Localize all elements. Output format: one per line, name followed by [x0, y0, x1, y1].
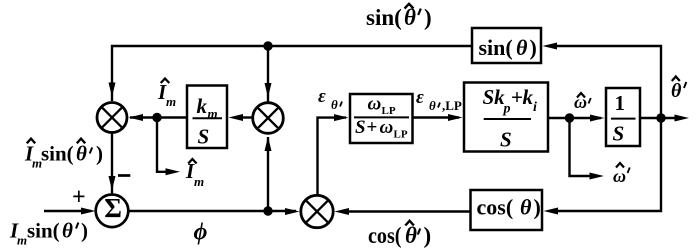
svg-text:ε: ε — [318, 86, 326, 107]
wire 1/S output to theta-hat' out — [640, 117, 683, 119]
wire PI output to 1/S — [548, 117, 601, 119]
svg-text:): ) — [530, 35, 537, 60]
svg-text:i: i — [533, 100, 537, 115]
svg-text:LP: LP — [382, 105, 396, 117]
svg-text:): ) — [81, 219, 88, 243]
arrow pickoff Im — [166, 168, 181, 175]
wire M2 output to km/S box — [238, 116, 253, 118]
svg-text:k: k — [523, 85, 534, 109]
svg-text:sin(: sin( — [27, 219, 60, 243]
svg-text:cos(: cos( — [368, 223, 402, 248]
wire feedback down to cos(theta) — [552, 118, 661, 211]
multiplier M2 — [253, 103, 284, 134]
label Im sin(theta') — [9, 219, 88, 248]
svg-text:m: m — [17, 233, 27, 248]
summer SIGMA — [96, 193, 129, 227]
arrow into M2 bottom — [265, 137, 272, 152]
svg-text:): ) — [424, 223, 432, 248]
wire feedback up to sin(theta) — [551, 46, 661, 118]
svg-text:ϕ: ϕ — [194, 220, 208, 246]
node junction phi line below M2 — [263, 206, 272, 215]
svg-text:+: + — [367, 117, 378, 138]
wire pickoff omega-hat' down and right — [570, 118, 598, 176]
PI controller block (Skp+ki)/S — [464, 83, 548, 152]
multiplier M1 — [97, 103, 127, 133]
svg-text:Σ: Σ — [104, 193, 122, 223]
svg-text:sin(: sin( — [366, 5, 402, 30]
svg-text:1: 1 — [615, 91, 626, 115]
wire arrow into multiplier M1 top — [109, 83, 116, 98]
label Im-hat (pickoff) — [185, 159, 204, 189]
arrow into summer top — [109, 176, 116, 191]
svg-text:ω: ω — [368, 94, 382, 115]
svg-text:θ: θ — [520, 195, 532, 220]
svg-text:): ) — [424, 5, 432, 30]
label Im-hat sin(theta-hat') — [24, 139, 103, 171]
svg-text:sin(: sin( — [41, 142, 74, 166]
wire input Im sin(theta') — [44, 210, 91, 212]
wire pickoff of Im estimate down and right — [157, 118, 172, 172]
label sin(theta-hat') top — [366, 4, 432, 30]
wire arrow into multiplier M2 top — [265, 83, 272, 98]
svg-text:S: S — [355, 117, 366, 138]
svg-text:ω: ω — [613, 166, 626, 186]
svg-text:): ) — [96, 142, 103, 166]
svg-text:S: S — [613, 122, 625, 146]
svg-text:+: + — [511, 85, 523, 109]
arrow into M3 right edge — [335, 208, 350, 215]
label omega-hat' (pickoff) — [613, 163, 630, 186]
arrow into summer left — [81, 208, 96, 215]
trig block cos(theta) — [471, 190, 543, 230]
svg-text:θ: θ — [429, 98, 436, 113]
svg-text:θ: θ — [331, 97, 338, 112]
wire cos(theta) output to M3 — [342, 210, 471, 212]
node junction on top line above M2 — [263, 41, 272, 50]
label epsilon theta' — [318, 86, 342, 112]
svg-text:): ) — [534, 195, 541, 220]
svg-text:+: + — [72, 185, 86, 211]
svg-text:θ: θ — [671, 80, 682, 102]
multiplier M3 — [301, 195, 333, 227]
trig block sin(theta) — [472, 28, 541, 63]
label minus sign — [118, 174, 130, 177]
svg-text:θ: θ — [62, 219, 73, 243]
arrow output theta-hat' — [675, 115, 690, 122]
label epsilon theta',LP — [416, 87, 462, 113]
arrow into PI block left edge — [448, 114, 463, 121]
wire LP output to PI block — [413, 116, 460, 118]
label theta-hat' output — [671, 77, 686, 103]
svg-text:LP: LP — [394, 129, 408, 141]
arrow into sin(theta) right edge — [543, 43, 558, 50]
node junction theta-hat' — [656, 113, 665, 122]
low-pass filter block wLP/(S+wLP) — [350, 94, 413, 144]
label Im-hat (above junction) — [157, 79, 176, 110]
arrow pickoff omega-hat' — [590, 173, 605, 180]
svg-text:θ: θ — [405, 223, 417, 248]
integrator block 1/S — [606, 88, 640, 146]
arrow into M1 right edge — [129, 114, 144, 121]
wire branch down into multiplier M2 — [267, 46, 269, 102]
arrow into km/S right edge — [229, 114, 244, 121]
wire summer output to multiplier M3 — [128, 210, 296, 212]
arrow into M3 left — [285, 208, 300, 215]
svg-text:cos(: cos( — [477, 195, 514, 220]
svg-text:θ: θ — [76, 142, 87, 166]
arrow into cos(theta) right edge — [544, 208, 559, 215]
label omega-hat' above — [574, 92, 591, 112]
svg-text:S: S — [198, 125, 210, 149]
svg-text:sin(: sin( — [479, 35, 513, 60]
arrow into 1/S left edge — [590, 115, 605, 122]
wire top feedback horizontal from sin(theta) output to left column — [112, 46, 472, 101]
svg-text:S: S — [500, 127, 512, 151]
svg-text:m: m — [166, 94, 176, 109]
wire M3 output up to LP filter — [318, 118, 347, 196]
svg-text:m: m — [194, 174, 204, 189]
node junction omega-hat' — [565, 113, 574, 122]
svg-text:p: p — [503, 102, 511, 117]
svg-text:ε: ε — [416, 87, 424, 108]
node junction Im estimate — [152, 113, 161, 122]
svg-text:k: k — [197, 94, 208, 118]
arrow into LP filter left edge — [334, 114, 349, 121]
label cos(theta-hat') — [368, 221, 431, 248]
wire M1 output down to summer — [111, 133, 113, 195]
integrator block km/S — [187, 86, 227, 149]
wire branch up into M2 bottom — [267, 137, 269, 211]
svg-text:,LP: ,LP — [442, 98, 462, 113]
svg-text:Sk: Sk — [483, 85, 506, 109]
svg-text:ω: ω — [380, 117, 394, 138]
wire km/S output to M1 — [130, 116, 187, 118]
svg-text:θ: θ — [516, 35, 528, 60]
